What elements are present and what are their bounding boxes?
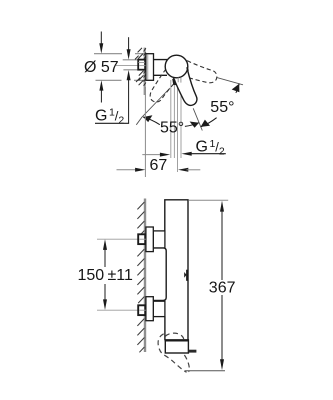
union pipe (wall to body) [154,60,168,76]
wall band hatch ticks [135,48,146,86]
lower union hex nut [138,305,146,315]
hex nut G1/2 [138,60,145,70]
cartridge detail ticks [187,67,188,71]
angle extension line, handle solid position axis [193,108,202,130]
dark wedge at handle neck [172,79,176,85]
dimension G1/2 thread arrow bottom / leader to label [127,70,131,80]
svg-text:55°: 55° [210,99,234,116]
dimension Ø57 extension line top [94,54,146,81]
dimension 367 line [221,211,223,360]
handle dashed position upper-right [181,60,219,85]
upper union centerline [97,238,146,240]
arrowhead center arc right [190,122,199,128]
valve ball body [165,55,188,78]
dimension 150+-11 line [104,248,106,301]
wall extension line down to 67 dim [144,87,146,177]
temperature stop marker on body [184,272,186,278]
hand shower hose (dashed) [158,333,189,372]
dimension 67 right arrow [178,168,188,172]
dimension Ø57 extension line bottom [96,79,147,81]
wall hatching (bottom view) [137,202,144,352]
leader underline G1/2 right with arrow [190,153,226,155]
lower union escutcheon [146,297,153,321]
dimension Ø57 arrow bottom [101,90,102,103]
body left edge between unions [153,248,166,301]
arrowhead center arc left [143,115,152,122]
arrowhead right arc bottom [201,120,210,127]
dimension 367 arrow down [220,359,224,370]
svg-text:55°: 55° [160,120,184,137]
dimension 367 reference line top [189,199,228,201]
upper union escutcheon [146,227,153,252]
outlet tab [188,350,196,353]
escutcheon (side view) [146,54,154,81]
svg-text:150: 150 [78,267,105,284]
body left edge below lower union [164,317,166,341]
lower union pipe [153,301,165,316]
wall band (top view) [144,48,146,95]
gray extension lines below valve [171,80,181,172]
svg-text:67: 67 [150,157,168,174]
55 degree arc (center) [143,117,199,126]
dimension G1/2 thread arrow top [127,37,131,123]
pipe centerline [116,65,142,67]
thermostat body outline [153,200,188,340]
dimension 67 left arrow [117,169,138,171]
handle dashed position lower-left [147,68,180,107]
wall line (bottom view) [144,199,146,353]
angle extension line, handle upper-right (dashed position axis) [217,77,244,84]
svg-text:367: 367 [209,280,236,297]
dimension Ø57 arrow top [99,32,103,103]
upper union pipe [153,231,165,248]
55 degree arc (right) [201,84,240,127]
lever handle (solid position) [172,69,202,108]
angle extension line, handle lower-left (dashed position axis) [136,88,170,125]
upper union hex nut [138,234,146,244]
leader underline G1/2 left [95,122,129,124]
dimension 367 arrow up [220,201,224,212]
dimension 150 arrow up [103,239,107,250]
lower union centerline [97,309,146,311]
svg-text:Ø 57: Ø 57 [84,59,119,76]
dimension 367 reference line bottom [185,370,226,372]
dimension G1/2 thread extension lines [123,60,139,70]
svg-text:±11: ±11 [108,267,133,284]
arrowhead right arc top [232,84,240,93]
leader line with arrow (to dashed handle centerline) [142,154,162,156]
dimension 150 arrow down [103,299,107,310]
outlet box (shower hose connection) [165,340,188,353]
wall hatching (top view) [135,48,143,60]
